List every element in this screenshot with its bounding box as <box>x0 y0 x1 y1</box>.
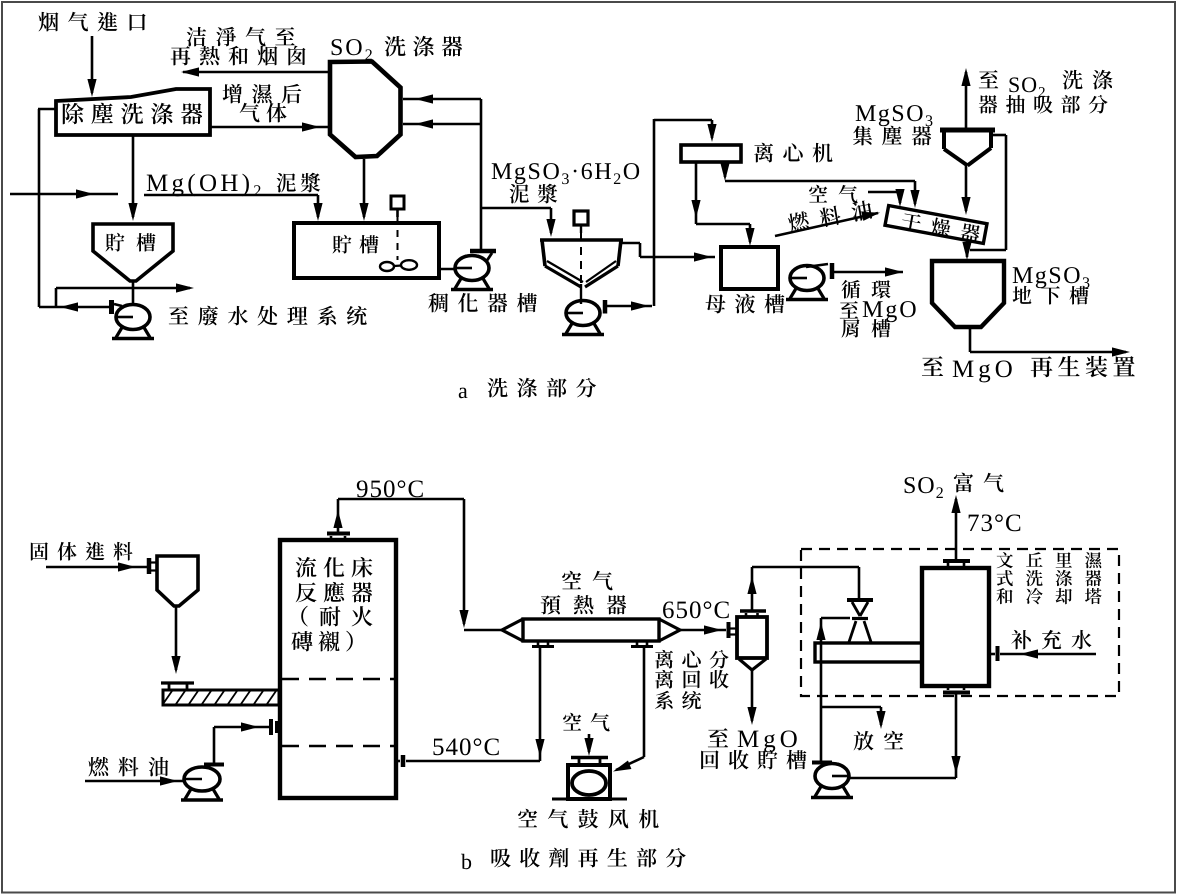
label 贮槽 tank1 <box>106 233 156 252</box>
boundary dashed box (venturi scrubber unit) <box>801 549 1119 696</box>
wire tower bottoms down to pump <box>951 693 960 778</box>
wire circulation into venturi <box>816 618 850 640</box>
wire cyclone gas up and over to venturi <box>747 567 859 611</box>
reactor internal dashed level upper <box>282 678 394 681</box>
label 烟气进口 (flue gas inlet) <box>39 12 146 32</box>
tower top nozzle <box>943 561 970 568</box>
label 650°C <box>663 601 729 618</box>
label 稠化器槽 <box>428 293 537 313</box>
vessel thickener tank with lined cone bottom <box>540 240 623 287</box>
label 离心机 <box>754 143 832 163</box>
vessel MgSO3 dust collector hopper <box>940 130 995 166</box>
label 贮槽 tank2 <box>333 235 379 254</box>
wire preheater outlet to cyclone <box>680 625 726 634</box>
label 燃料油 (fuel oil) <box>89 757 169 777</box>
reactor left fuel nozzle <box>271 719 277 735</box>
label 950°C <box>357 480 423 497</box>
wire blower air riser right <box>643 648 646 757</box>
wire fuel oil suction line <box>85 776 184 785</box>
label MgSO3 地下槽 <box>1013 267 1090 304</box>
label 固体进料 (solid feed) <box>31 542 133 561</box>
wire flue gas down arrow <box>87 36 96 97</box>
wire mother liquor pump discharge arrow <box>834 267 903 276</box>
wire tank1 outlet stem <box>132 281 135 303</box>
wire Mg(OH)2 inlet stub with arrow <box>10 189 118 198</box>
agitator of thickener: motor square, dash-dot shaft <box>574 211 588 304</box>
agitator of tank2: motor square, dashed shaft, propeller <box>380 196 417 271</box>
wire 540C air line from preheater <box>406 648 545 761</box>
label 空气 (air to dryer) <box>809 185 858 204</box>
label 燃料油 (fuel oil, slanted) <box>787 199 873 233</box>
label 73°C <box>969 514 1021 531</box>
pump waste/recycle pump <box>112 300 155 339</box>
label 至 SO2 洗涤 器抽吸部分 <box>979 70 1113 114</box>
pump thickener feed pump 稠化器槽 <box>451 251 496 290</box>
label SO2 富气 <box>905 473 1004 498</box>
wire centrifuge liquor to mother liquor tank <box>691 162 754 246</box>
wire to waste-water branch <box>56 283 194 307</box>
label 文丘里湿 式洗涤器 和冷却塔 <box>996 552 1101 604</box>
wire centrifuge solids line to dryer <box>720 162 919 208</box>
vessel storage tank1 贮槽 hopper <box>93 224 173 281</box>
label 至废水处理系统 (to waste water treatment) <box>169 306 367 326</box>
wire Mg(OH)2 slurry line to tank2 <box>144 195 323 221</box>
vessel cooling tower 文丘里/冷却塔 <box>922 568 989 686</box>
wire recycle bottom run with left arrow <box>39 302 111 311</box>
wire slurry riser x=481 <box>480 99 483 251</box>
label SO2 洗涤器 (SO2 scrubber) <box>332 36 462 60</box>
vessel storage tank2 贮槽 box <box>294 223 439 278</box>
vessel venturi inlet duct <box>815 643 922 662</box>
wire pump suction run from tower <box>849 777 956 780</box>
wire feed hopper drop line <box>171 606 180 674</box>
vessel rotary dryer 干燥器 (tilted) <box>885 206 987 244</box>
wire SO2 scrubber bottom drain to tank2 <box>359 159 368 221</box>
label a 洗涤部分 (section a) <box>459 378 596 398</box>
label 除尘洗涤器 <box>63 103 202 125</box>
wire collector gas up arrow <box>961 68 970 128</box>
label MgSO3·6H2O 泥浆 <box>492 163 639 203</box>
preheater right foot <box>631 641 653 647</box>
tower makeup water nozzle <box>991 646 998 661</box>
wire makeup water line with arrow <box>1000 649 1096 658</box>
feeder screw hatched bar <box>163 690 279 705</box>
pump mother liquor pump <box>786 263 832 300</box>
reactor top nozzle <box>327 534 350 541</box>
wire underground tank outlet to MgO regeneration <box>970 329 1130 357</box>
wire SO2 rich gas up arrow <box>951 495 960 561</box>
label 至 MgO 再生装置 <box>922 356 1135 382</box>
label 空气 预热器 (air preheater) <box>541 571 626 615</box>
label 干燥器 (tilted) <box>900 211 981 244</box>
vessel feed hopper <box>149 556 198 606</box>
label 洁净气至 再热和烟囱 (clean gas to reheat and stack) <box>171 27 306 66</box>
label 至 MgO 回收贮槽 <box>701 728 806 769</box>
label MgSO3 集尘器 (collector) <box>853 105 932 145</box>
vessel air preheater 空气预热器 <box>502 619 680 641</box>
wire thickener overflow to mother liquor tank <box>621 243 715 262</box>
preheater left foot <box>532 641 554 647</box>
pump thickener underflow pump <box>562 300 605 335</box>
wire fuel oil slanted arrow into dryer <box>775 208 881 236</box>
label 循环 至MgO 屑槽 (recycle to MgO chip tank) <box>840 280 916 338</box>
wire fuel oil line to reactor <box>214 722 269 764</box>
wire 950C offgas line to preheater <box>333 499 504 630</box>
wire dryer outlet down to underground tank <box>962 242 971 260</box>
vessel MgSO3 underground tank 地下槽 <box>932 261 1004 327</box>
label Mg(OH)2 泥浆 slurry <box>147 173 320 197</box>
wire slurry feed lower arrow into scrubber <box>403 119 481 128</box>
wire scrubber left stub <box>38 108 56 111</box>
label 空气 (air to blower) <box>563 713 610 732</box>
wire cyclone solids down arrow <box>747 670 756 725</box>
label 流化床 反应器 （耐火 砖衬） <box>291 557 372 652</box>
wire clean gas line out with arrow <box>181 67 329 76</box>
vessel mother liquor tank 母液槽 <box>721 247 778 289</box>
pump fuel oil pump <box>181 765 224 801</box>
vessel centrifuge 离心机 box <box>681 145 741 162</box>
wire underflow pump discharge <box>607 301 652 310</box>
wire MgSO3 slurry branch to thickener <box>481 208 556 237</box>
wire slurry feed upper arrow into scrubber <box>403 94 481 103</box>
vessel fluidized bed reactor 流化床反应器 <box>280 540 396 798</box>
wire collector bypass line <box>970 135 1006 250</box>
vessel air blower 空气鼓风机 (box+impeller) <box>552 758 627 800</box>
feeder pedestal <box>161 683 194 690</box>
label 补充水 (makeup water) <box>1011 630 1091 650</box>
label 离心分 离回收 系统 <box>655 650 729 710</box>
vessel SO2 scrubber tower <box>330 62 401 158</box>
wire blower diagonal duct with arrow <box>611 757 644 776</box>
wire left recycle riser <box>38 109 41 307</box>
wire air down arrow into blower <box>584 734 593 756</box>
label b 吸收剂再生部分 (section b) <box>461 848 686 869</box>
pump tower circulation pump <box>811 763 853 798</box>
wire centrifuge riser x=654 <box>653 119 656 306</box>
wire dust scrubber drain to tank1 <box>128 135 137 221</box>
wire tank2 outlet to thickener pump <box>439 268 456 271</box>
label 放空 (vent) <box>854 731 904 751</box>
wire air line into dryer <box>868 189 905 207</box>
wire humidified gas line to SO2 scrubber <box>211 122 329 131</box>
wire solid feed arrow <box>46 562 147 571</box>
component venturi ejector <box>847 600 873 642</box>
vessel dust-removal scrubber 除尘洗涤器 box <box>56 89 210 135</box>
reactor right nozzle 540C <box>397 755 403 767</box>
vessel cyclone 离心分离回收系统 <box>737 611 767 670</box>
wire collector solids down to dryer <box>961 165 970 215</box>
wire vent branch 放空 <box>821 707 886 729</box>
reactor internal dashed level lower <box>282 745 394 748</box>
label 空气鼓风机 (air blower) <box>518 809 659 829</box>
wire riser top elbow into centrifuge <box>654 120 717 142</box>
cyclone inlet flange <box>729 622 737 638</box>
wire circulation riser x=821 <box>820 640 823 762</box>
label 增湿后 气体 (humidified gas) <box>223 84 302 123</box>
label 540°C <box>433 738 498 755</box>
tower bottom nozzle <box>943 687 970 693</box>
label 母液槽 <box>706 294 785 314</box>
